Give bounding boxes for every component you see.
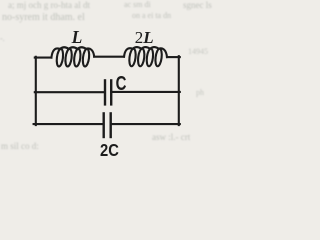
capacitor 2C [104,113,111,137]
svg-text:asw :l.- crt: asw :l.- crt [152,132,191,142]
wire: right vertical [178,56,180,125]
capacitor C [105,80,111,104]
page bleed-through text bottom [1,132,191,151]
svg-text:2L: 2L [135,28,154,47]
svg-text:C: C [116,72,127,95]
svg-text:sgnec ls: sgnec ls [183,0,212,10]
svg-text:-.: -. [0,34,5,43]
wire: stub between inductors [94,56,124,58]
wire: top-left stub [35,57,52,59]
wire: left vertical [35,57,37,125]
wire: bottom horizontal right [112,123,180,125]
svg-text:14945: 14945 [188,47,208,56]
svg-text:m sil co d:: m sil co d: [1,141,39,151]
svg-text:2C: 2C [100,140,119,160]
wire: middle horizontal right [112,91,180,93]
wire: middle horizontal left [35,91,104,93]
wire: bottom horizontal left [34,123,103,125]
wire: top-right stub [167,56,180,58]
svg-text:L: L [71,27,83,47]
svg-text:ph: ph [196,88,204,97]
svg-text:on a ei ta dn: on a ei ta dn [132,11,171,20]
inductor 2L [124,47,167,67]
svg-text:a; mj och g ro-hta al dt: a; mj och g ro-hta al dt [8,0,90,10]
svg-text:no-syrem it dham. el: no-syrem it dham. el [2,12,85,23]
svg-text:ac sm di: ac sm di [124,0,151,9]
page bleed-through text top [0,0,212,43]
page bleed-through text right margin [188,47,208,97]
label 2L [135,28,154,47]
inductor L [51,47,94,67]
